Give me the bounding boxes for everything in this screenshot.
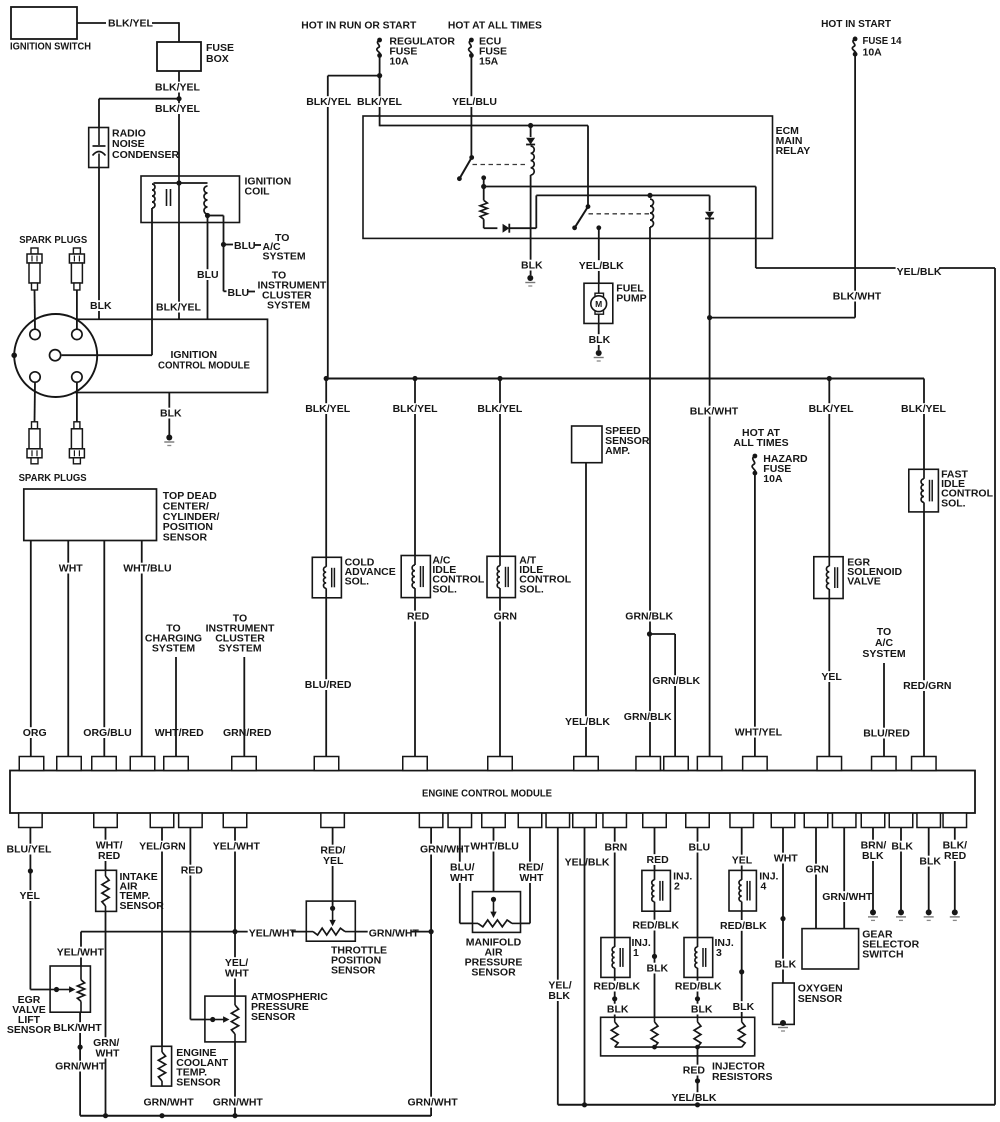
svg-text:FUSE 14: FUSE 14 <box>863 35 902 47</box>
svg-text:SENSOR: SENSOR <box>471 967 516 979</box>
svg-text:GRN/WHT: GRN/WHT <box>213 1097 264 1109</box>
svg-text:4: 4 <box>761 881 767 893</box>
junction bus YEL/BLK 2 <box>582 1102 587 1107</box>
svg-text:RESISTORS: RESISTORS <box>712 1071 773 1083</box>
wire BLK/WHT from relay diode3 <box>709 219 711 757</box>
wire regulator fuse BLK/YEL <box>379 55 381 126</box>
svg-text:BLK/YEL: BLK/YEL <box>477 403 523 415</box>
wire BLK/YEL label fast idle <box>900 403 944 414</box>
wire RED/BLK INJ4 <box>741 911 743 1022</box>
svg-text:SOL.: SOL. <box>941 497 966 509</box>
svg-text:SWITCH: SWITCH <box>862 949 903 961</box>
EGR wiper <box>50 989 56 991</box>
bus BLK/YEL horizontal <box>326 378 924 380</box>
wire YEL to INJ4 <box>741 828 743 871</box>
svg-text:GRN: GRN <box>805 864 828 876</box>
wire BLK/YEL through coil <box>178 176 180 223</box>
svg-text:YEL/BLK: YEL/BLK <box>565 857 610 869</box>
cold advance solenoid <box>312 557 341 598</box>
wire TDC WHT <box>67 541 69 757</box>
wire ICM ground BLK <box>168 393 170 437</box>
injector resistors internal bus <box>615 1046 742 1048</box>
svg-text:BLK/YEL: BLK/YEL <box>155 82 201 94</box>
fast idle control solenoid <box>909 469 939 512</box>
svg-text:BLK: BLK <box>160 408 182 420</box>
svg-text:WHT: WHT <box>225 968 249 980</box>
wire GRN/BLK relay coil2 to ECM <box>649 227 651 757</box>
junction coil2 top <box>647 193 652 198</box>
svg-text:BLK/YEL: BLK/YEL <box>901 403 947 415</box>
relay switch2 contact to fuel pump <box>596 225 601 230</box>
relay switch1 contact <box>481 175 486 180</box>
junction bus x829 <box>827 376 832 381</box>
wire distributor to plug4 <box>76 382 78 422</box>
svg-text:M: M <box>595 299 602 309</box>
wire coil BLK/YEL down to ICM <box>178 223 180 320</box>
svg-text:WHT/BLU: WHT/BLU <box>470 841 518 853</box>
ignition coil secondary winding <box>204 186 207 214</box>
junction coil secondary bottom <box>205 213 210 218</box>
svg-text:RED/GRN: RED/GRN <box>903 680 951 692</box>
svg-text:HOT IN START: HOT IN START <box>821 18 892 30</box>
injector resistor inlet stubs <box>614 1017 616 1022</box>
wire regulator fuse inside relay <box>379 114 381 126</box>
splice RED YEL/BLK <box>695 1078 700 1083</box>
wire BLU down to ICM <box>207 216 209 320</box>
injector 2 <box>642 870 671 911</box>
svg-text:BLU/YEL: BLU/YEL <box>7 844 53 856</box>
regulator fuse 10A <box>377 38 382 43</box>
wire GRN/RED from instrument cluster <box>243 657 245 757</box>
wire GRN/WHT ECM to ground bus <box>430 828 432 1117</box>
svg-text:BLK: BLK <box>775 959 797 971</box>
injector 3 <box>684 938 713 978</box>
svg-text:WHT: WHT <box>96 1048 120 1060</box>
relay diode 2 <box>484 227 498 229</box>
injector resistor 3 <box>694 1022 701 1047</box>
relay resistor <box>483 187 485 201</box>
distributor <box>14 314 97 397</box>
svg-text:BRN: BRN <box>605 842 628 854</box>
spark plug 1 <box>31 248 38 254</box>
ground BLK 1 <box>898 909 904 915</box>
wire distributor to plug3 <box>34 382 37 422</box>
junction coil top <box>176 180 181 185</box>
svg-text:RELAY: RELAY <box>776 145 811 157</box>
wire ECU fuse YEL/BLU <box>470 55 472 157</box>
relay switch 2 <box>587 126 589 207</box>
EGR solenoid valve <box>814 557 843 599</box>
svg-text:BLU: BLU <box>234 240 256 252</box>
svg-text:YEL/WHT: YEL/WHT <box>57 947 105 959</box>
fuel pump YEL/BLK label <box>578 260 622 271</box>
wire trigger inside ICM <box>62 354 152 356</box>
fuse box <box>157 42 201 71</box>
ground oxygen sensor <box>780 1020 786 1026</box>
wire RED to INJ2 <box>654 828 656 871</box>
wire TDC ORG <box>30 541 32 757</box>
svg-text:SOL.: SOL. <box>345 576 370 588</box>
ECU fuse 15A <box>469 38 474 43</box>
svg-text:2: 2 <box>674 881 680 893</box>
svg-text:HOT AT ALL TIMES: HOT AT ALL TIMES <box>448 20 542 32</box>
relay coil 2 <box>650 199 654 227</box>
oxygen sensor <box>773 983 795 1024</box>
ignition switch <box>11 7 77 39</box>
junction bus x326 <box>324 376 329 381</box>
atmospheric pressure sensor <box>205 996 246 1042</box>
engine coolant temp sensor <box>151 1046 171 1086</box>
svg-text:CONTROL MODULE: CONTROL MODULE <box>158 360 250 372</box>
wire plug1 to distributor <box>34 290 37 329</box>
svg-text:YEL/BLK: YEL/BLK <box>579 260 624 272</box>
svg-text:BOX: BOX <box>206 53 229 65</box>
wire YEL/WHT to throttle sensor <box>234 828 236 997</box>
svg-text:YEL/BLU: YEL/BLU <box>452 96 497 108</box>
junction BLK/WHT fuse14 <box>707 315 712 320</box>
injector resistor 2 <box>651 1022 658 1047</box>
node BLU to instrument cluster system <box>224 290 228 292</box>
svg-text:GRN/WHT: GRN/WHT <box>144 1097 195 1109</box>
junction bus x500 <box>497 376 502 381</box>
ground BLK 2 <box>926 909 932 915</box>
svg-text:COIL: COIL <box>245 186 271 198</box>
wire WHT to oxygen sensor <box>782 828 784 984</box>
svg-text:BLU: BLU <box>228 287 250 299</box>
svg-text:RED: RED <box>407 611 430 623</box>
injector 1 <box>601 938 630 978</box>
splice INJ2 BLK <box>652 954 657 959</box>
svg-text:YEL/WHT: YEL/WHT <box>249 928 297 940</box>
svg-text:WHT: WHT <box>59 563 83 575</box>
svg-text:SENSOR: SENSOR <box>176 1076 221 1088</box>
wire distributor center to ICM <box>62 354 98 356</box>
wire coolant sensor GRN/WHT <box>143 1097 187 1108</box>
wire RED/BLK INJ1 <box>614 977 616 1022</box>
wire coil secondary to distributor <box>151 208 153 355</box>
svg-text:1: 1 <box>633 947 639 959</box>
svg-text:10A: 10A <box>389 56 409 68</box>
svg-text:10A: 10A <box>763 473 783 485</box>
svg-text:VALVE: VALVE <box>847 576 880 588</box>
wire BLK/YEL to A/T idle solenoid <box>499 379 501 757</box>
injector resistors box <box>601 1017 755 1056</box>
wire BLK to ground 1 <box>900 828 902 911</box>
svg-text:RED: RED <box>98 850 121 862</box>
wire RED/BLK INJ3 <box>697 977 699 1022</box>
svg-text:SOL.: SOL. <box>432 583 457 595</box>
wire BLK/YEL to A/C idle solenoid <box>414 379 416 757</box>
wire hazard fuse WHT/YEL to ECM <box>754 473 756 756</box>
hazard fuse 10A <box>753 454 758 459</box>
svg-text:BLK: BLK <box>90 300 112 312</box>
svg-text:RED: RED <box>944 850 967 862</box>
svg-text:RED/BLK: RED/BLK <box>593 981 640 993</box>
svg-text:SYSTEM: SYSTEM <box>263 250 306 262</box>
svg-text:WHT/YEL: WHT/YEL <box>735 727 783 739</box>
wire GRN/WHT intake sensor to ground bus <box>105 911 107 1115</box>
svg-text:3: 3 <box>716 947 722 959</box>
speed sensor amp <box>572 426 602 463</box>
wire TDC ORG/BLU <box>103 541 105 757</box>
svg-text:ALL TIMES: ALL TIMES <box>733 437 788 449</box>
svg-text:BLK/YEL: BLK/YEL <box>306 96 352 108</box>
junction GRN/BLK branch <box>647 631 652 636</box>
svg-text:GRN/WHT: GRN/WHT <box>55 1061 106 1073</box>
ground relay coil1 <box>527 275 533 281</box>
svg-text:GRN/WHT: GRN/WHT <box>420 844 471 856</box>
wire YEL/GRN to coolant sensor <box>161 828 163 1047</box>
svg-text:BLK/YEL: BLK/YEL <box>357 96 403 108</box>
junction GRN/WHT <box>429 929 434 934</box>
svg-text:GRN/BLK: GRN/BLK <box>652 675 700 687</box>
wire ECU fuse inside relay <box>470 114 472 158</box>
junction ground bus coolant <box>159 1113 164 1118</box>
wire RED from resistors <box>697 1047 699 1105</box>
wire bus end down to fast idle sol <box>923 379 925 757</box>
relay coil 1 <box>531 146 535 175</box>
wire branch to radio noise condenser <box>99 98 179 100</box>
junction rail A <box>528 123 533 128</box>
ECM top connectors <box>19 757 44 771</box>
svg-text:PUMP: PUMP <box>616 293 646 305</box>
svg-text:SENSOR: SENSOR <box>251 1011 296 1023</box>
svg-text:ORG: ORG <box>23 727 47 739</box>
svg-text:YEL/BLK: YEL/BLK <box>565 716 610 728</box>
splice INJ4 BLK <box>739 969 744 974</box>
wire BLK/RED to ground <box>954 828 956 911</box>
spark plug 4 <box>74 422 80 429</box>
svg-text:BLK: BLK <box>691 1004 713 1016</box>
ground fuel pump <box>596 350 602 356</box>
relay rail C <box>535 195 537 228</box>
wire condenser to ICM BLK <box>98 168 100 320</box>
svg-text:WHT/RED: WHT/RED <box>155 727 204 739</box>
throttle potentiometer <box>313 928 345 935</box>
svg-text:GRN/WHT: GRN/WHT <box>408 1097 459 1109</box>
svg-text:GRN/WHT: GRN/WHT <box>822 891 873 903</box>
A/C idle control solenoid <box>401 556 430 598</box>
svg-text:WHT: WHT <box>520 872 544 884</box>
top dead center sensor <box>24 489 157 541</box>
svg-text:YEL/GRN: YEL/GRN <box>139 841 186 853</box>
svg-text:BLK/YEL: BLK/YEL <box>156 302 202 314</box>
junction regulator fuse branch <box>377 73 382 78</box>
svg-text:BLK: BLK <box>607 1004 629 1016</box>
wire GRN/WHT throttle to ECM wire <box>355 931 431 933</box>
spark plug 3 <box>32 422 38 429</box>
svg-text:BLK/WHT: BLK/WHT <box>53 1022 102 1034</box>
ground ICM <box>166 435 172 441</box>
relay switch2 actuation dashed <box>589 213 650 215</box>
wire speed sensor amp YEL/BLK to ECM <box>585 463 587 757</box>
splice INJ3 BLK <box>695 996 700 1001</box>
wire YEL/BLK rail B to right edge <box>755 187 757 269</box>
injector resistor 1 <box>611 1022 618 1047</box>
svg-text:BLK: BLK <box>647 963 669 975</box>
radio noise condenser <box>89 128 109 168</box>
svg-text:10A: 10A <box>863 47 883 59</box>
relay rail B <box>481 184 486 189</box>
wire TDC WHT/BLU <box>141 541 143 757</box>
svg-text:SYSTEM: SYSTEM <box>218 643 261 655</box>
wire YEL/WHT horizontal throttle <box>81 931 306 933</box>
wire YEL/BLK 1 to bus <box>557 828 559 1105</box>
ground bus left <box>80 1115 431 1117</box>
svg-text:HOT IN RUN OR START: HOT IN RUN OR START <box>301 20 417 32</box>
relay switch 1 <box>469 155 474 160</box>
relay switch1 actuation dashed <box>473 164 527 166</box>
wire RED/BLK INJ2 <box>654 911 656 1022</box>
wire GRN to gear selector switch <box>815 828 817 929</box>
wire fuel pump ground BLK <box>598 324 600 351</box>
svg-text:SENSOR: SENSOR <box>120 900 165 912</box>
ignition coil primary winding <box>152 184 155 208</box>
svg-text:ENGINE CONTROL MODULE: ENGINE CONTROL MODULE <box>422 788 552 800</box>
svg-text:YEL: YEL <box>323 855 344 867</box>
svg-text:SENSOR: SENSOR <box>798 993 843 1005</box>
wire BLK/YEL to EGR solenoid valve <box>828 379 830 757</box>
svg-text:BLK: BLK <box>862 850 884 862</box>
svg-text:BLK: BLK <box>521 260 543 272</box>
svg-text:YEL/BLK: YEL/BLK <box>672 1092 717 1104</box>
svg-text:SENSOR: SENSOR <box>331 965 376 977</box>
ground bus right YEL/BLK <box>558 1104 995 1106</box>
svg-text:GRN: GRN <box>494 611 517 623</box>
svg-text:IGNITION SWITCH: IGNITION SWITCH <box>10 41 91 53</box>
junction bus injector resistors <box>695 1102 700 1107</box>
svg-text:GRN/WHT: GRN/WHT <box>369 928 420 940</box>
wire RED to atmospheric sensor <box>189 828 191 1020</box>
svg-text:RED: RED <box>181 865 204 877</box>
svg-text:BLK/YEL: BLK/YEL <box>809 403 855 415</box>
relay rail from regulator fuse <box>380 125 588 127</box>
svg-text:SENSOR: SENSOR <box>163 532 208 544</box>
splice BLU/YEL YEL <box>28 868 33 873</box>
wire BLU/RED to ECM from A/C system <box>883 663 885 757</box>
svg-text:BLK: BLK <box>548 990 570 1002</box>
svg-text:BLK/YEL: BLK/YEL <box>108 18 154 30</box>
spark plug 2 <box>73 248 80 254</box>
injector resistor 4 <box>738 1022 745 1047</box>
svg-text:SPARK PLUGS: SPARK PLUGS <box>19 234 87 246</box>
junction ground bus atmospheric <box>232 1113 237 1118</box>
wire atmospheric GRN/WHT down <box>234 1042 236 1116</box>
svg-text:CONDENSER: CONDENSER <box>112 149 180 161</box>
svg-text:RED/BLK: RED/BLK <box>632 920 679 932</box>
svg-text:BLK/WHT: BLK/WHT <box>833 291 882 303</box>
svg-text:WHT: WHT <box>774 853 798 865</box>
wire RED/WHT to manifold sensor <box>529 828 531 924</box>
svg-text:GRN/BLK: GRN/BLK <box>625 611 673 623</box>
wire GRN/WHT to gear selector switch <box>843 828 845 929</box>
node distributor housing <box>11 353 17 359</box>
svg-text:RED/BLK: RED/BLK <box>675 981 722 993</box>
ground BLK/RED <box>952 909 958 915</box>
ground BRN/BLK <box>870 909 876 915</box>
svg-text:SPARK PLUGS: SPARK PLUGS <box>19 472 87 484</box>
wire BLK/WHT label below bus <box>689 406 733 417</box>
wire fuse 14 down <box>854 54 856 317</box>
fuel pump <box>584 283 613 323</box>
junction fuse box wire <box>176 96 181 101</box>
svg-text:RED: RED <box>647 854 670 866</box>
ignition coil <box>141 176 240 223</box>
svg-text:RED/BLK: RED/BLK <box>720 920 767 932</box>
wire plug2 to distributor <box>76 290 78 329</box>
ECM main relay box <box>363 116 773 238</box>
junction resistor bus 3 <box>695 1045 700 1050</box>
manifold air pressure sensor <box>473 892 521 933</box>
svg-text:SOL.: SOL. <box>519 583 544 595</box>
node BLU to A/C system <box>221 242 226 247</box>
engine control module <box>10 771 975 814</box>
svg-text:WHT/BLU: WHT/BLU <box>123 563 171 575</box>
wire coil1 to ground BLK <box>530 175 532 275</box>
wire fuse box down BLK/YEL <box>178 71 180 177</box>
svg-text:SENSOR: SENSOR <box>7 1024 52 1036</box>
splice BLK/WHT GRN/WHT <box>78 1045 83 1050</box>
wire coil to BLU branches <box>208 215 224 217</box>
wire BLK to ground 2 <box>928 828 930 911</box>
svg-text:ORG/BLU: ORG/BLU <box>83 727 131 739</box>
wire BLK/YEL to cold advance solenoid <box>325 379 327 757</box>
svg-text:15A: 15A <box>479 56 499 68</box>
wire WHT/RED to intake air temp sensor <box>105 828 107 871</box>
distributor terminals <box>30 329 40 339</box>
svg-text:RED: RED <box>683 1065 706 1077</box>
svg-text:SYSTEM: SYSTEM <box>862 648 905 660</box>
svg-text:BLK/YEL: BLK/YEL <box>305 403 351 415</box>
svg-text:AMP.: AMP. <box>605 445 630 457</box>
wire BLU/RED cold advance to ECM <box>304 679 348 690</box>
ignition coil core <box>166 189 168 206</box>
wire branch BLK/YEL left <box>328 75 380 77</box>
svg-text:WHT: WHT <box>450 872 474 884</box>
ECM bottom connectors <box>19 813 43 828</box>
splice WHT BLK <box>780 916 785 921</box>
ignition control module <box>70 319 268 392</box>
relay diode 1 <box>530 126 532 138</box>
svg-text:SYSTEM: SYSTEM <box>152 643 195 655</box>
svg-text:BLK: BLK <box>589 334 611 346</box>
junction YEL/WHT <box>232 929 237 934</box>
svg-text:BLU/RED: BLU/RED <box>863 728 910 740</box>
junction ground bus intake <box>103 1113 108 1118</box>
svg-text:BLK: BLK <box>919 856 941 868</box>
svg-text:BLU: BLU <box>197 269 219 281</box>
svg-text:SYSTEM: SYSTEM <box>267 300 310 312</box>
wire BRN/BLK to ground <box>872 828 874 911</box>
wire ignition switch to fuse box BLK/YEL <box>77 22 106 24</box>
intake air temp sensor <box>96 870 117 911</box>
relay diode 3 <box>709 195 711 211</box>
svg-text:BLK/YEL: BLK/YEL <box>155 103 201 115</box>
A/T idle control solenoid <box>487 556 515 597</box>
svg-text:BLK/YEL: BLK/YEL <box>393 403 439 415</box>
junction resistor bus 2 <box>652 1045 657 1050</box>
svg-text:BLU/RED: BLU/RED <box>305 679 352 691</box>
svg-text:BLK/WHT: BLK/WHT <box>690 406 739 418</box>
svg-text:BLK: BLK <box>891 841 913 853</box>
svg-text:YEL: YEL <box>732 855 753 867</box>
throttle position sensor <box>306 901 355 941</box>
gear selector switch <box>802 929 859 969</box>
wire BLK/WHT EGR sensor down <box>79 1012 81 1115</box>
wire WHT/BLU to manifold sensor <box>493 828 495 900</box>
svg-text:BLK: BLK <box>733 1001 755 1013</box>
wire RED/YEL into throttle sensor <box>332 828 334 909</box>
